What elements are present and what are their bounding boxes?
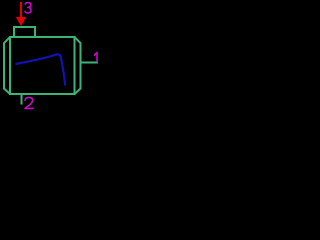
pin 3 number bbox=[25, 3, 31, 13]
pin 2 number bbox=[25, 97, 33, 108]
pin 2 wire (bottom) bbox=[21, 94, 23, 105]
pin 1 wire (right) bbox=[81, 62, 99, 64]
transistor body (front face rectangle) bbox=[10, 37, 75, 94]
left chamfered flange bbox=[4, 37, 10, 94]
pin 1 number bbox=[94, 52, 97, 61]
mounting tab on top bbox=[14, 27, 35, 37]
characteristic curve bbox=[16, 54, 66, 85]
right chamfered flange bbox=[75, 37, 81, 94]
pin 3 arrow (top) bbox=[20, 2, 22, 18]
